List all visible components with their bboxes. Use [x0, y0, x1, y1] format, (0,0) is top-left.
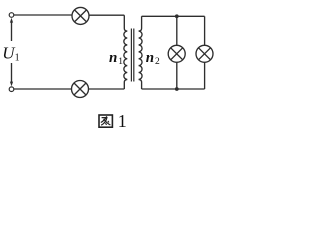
- svg-text:n: n: [146, 50, 154, 66]
- lamp EL1 (top left loop): [72, 7, 89, 24]
- inductor secondary winding n2: [139, 16, 142, 89]
- transformer core: [131, 29, 133, 82]
- wire lamp EL2 to bottom-left terminal: [14, 88, 72, 90]
- wire middle branch lower: [176, 62, 178, 89]
- junction dot top (node A): [175, 14, 179, 18]
- wire right branch lower: [204, 62, 206, 89]
- inductor primary winding n1: [124, 15, 127, 89]
- terminal top-left: [9, 13, 14, 18]
- svg-text:1: 1: [15, 53, 20, 64]
- wire bottom-right: [142, 88, 205, 90]
- terminal bottom-left: [9, 87, 14, 92]
- wire top-left horizontal: [14, 14, 72, 16]
- wire bottom-left (transformer to lamp EL2): [89, 88, 125, 90]
- svg-text:n: n: [109, 50, 117, 66]
- lamp EL4 (right pair, right): [196, 45, 213, 62]
- wire lamp EL1 to transformer primary: [89, 14, 124, 16]
- U1 voltage arrow upper segment: [10, 18, 13, 41]
- U1 voltage arrow lower segment: [10, 63, 13, 86]
- lamp EL3 (right pair, left): [168, 45, 185, 62]
- caption: hanzi TU (figure) drawn as glyph: [99, 115, 112, 127]
- wire top-right (secondary to right branch corner): [142, 15, 205, 17]
- svg-text:1: 1: [118, 111, 127, 131]
- wire middle branch upper: [176, 16, 178, 45]
- junction dot bottom (node B): [175, 87, 179, 91]
- svg-text:2: 2: [155, 57, 160, 67]
- wire right branch upper: [204, 16, 206, 45]
- svg-text:1: 1: [118, 57, 123, 67]
- lamp EL2 (bottom left loop): [72, 81, 89, 98]
